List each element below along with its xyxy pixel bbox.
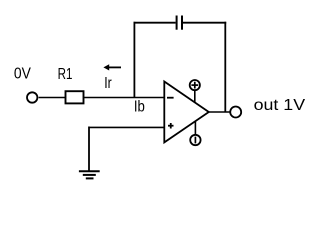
current arrow Ir xyxy=(103,64,121,70)
wire: op-amp output xyxy=(209,111,230,113)
op-amp positive supply symbol xyxy=(190,80,200,103)
output terminal xyxy=(230,107,241,118)
input terminal 0V xyxy=(27,92,37,102)
wire: ground vertical xyxy=(88,127,90,172)
resistor R1 xyxy=(66,91,84,103)
svg-text:out 1V: out 1V xyxy=(254,97,306,114)
svg-text:Ir: Ir xyxy=(104,75,112,92)
wire: feedback right vertical xyxy=(224,22,226,112)
op-amp U1 xyxy=(164,82,209,143)
wire: non-inverting input to ground (horizontal) xyxy=(89,126,164,128)
svg-text:0V: 0V xyxy=(14,66,31,83)
capacitor C (left plate) xyxy=(176,16,178,30)
wire: R1 to op-amp inverting input xyxy=(84,97,165,99)
svg-text:R1: R1 xyxy=(58,66,73,83)
wire: top feedback right segment xyxy=(183,22,226,24)
wire: top feedback left segment xyxy=(134,22,176,24)
svg-text:Ib: Ib xyxy=(134,99,145,116)
ground xyxy=(79,171,100,178)
op-amp negative supply symbol xyxy=(190,122,200,146)
wire: feedback left vertical xyxy=(133,22,135,98)
capacitor C (right plate) xyxy=(181,16,183,30)
wire: input terminal to R1 xyxy=(39,97,66,99)
